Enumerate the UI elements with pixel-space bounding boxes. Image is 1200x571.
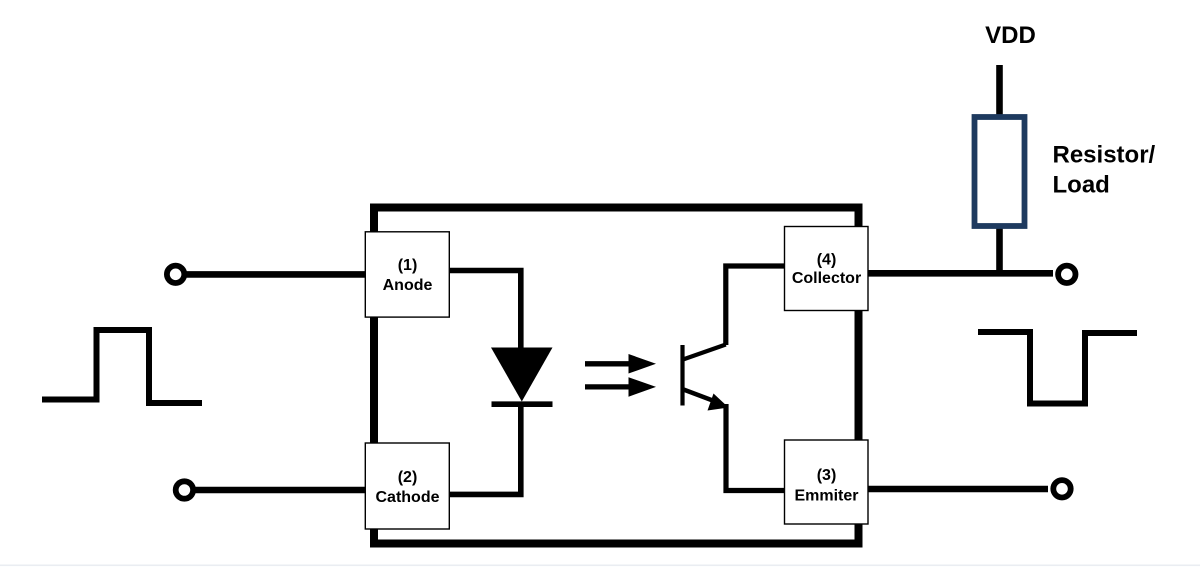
svg-text:Emmiter: Emmiter xyxy=(794,488,858,505)
transistor emitter arrowhead xyxy=(708,394,729,411)
input pulse waveform xyxy=(42,330,202,403)
svg-text:(1): (1) xyxy=(398,257,418,274)
light arrow 1 xyxy=(585,361,631,366)
wire collector internal xyxy=(726,266,785,345)
light arrow 2 xyxy=(585,384,631,389)
svg-text:(2): (2) xyxy=(398,469,418,486)
svg-text:Load: Load xyxy=(1053,172,1110,199)
output pulse waveform xyxy=(978,332,1137,404)
transistor Q1 base bar xyxy=(680,345,684,406)
wire emitter output xyxy=(866,486,1048,493)
wire transistor emitter diagonal xyxy=(684,390,715,402)
wire VDD to resistor xyxy=(996,65,1003,117)
optocoupler package outline U1 xyxy=(374,208,859,544)
wire emitter internal xyxy=(726,404,785,491)
resistor R1 (load) xyxy=(975,117,1025,226)
svg-text:VDD: VDD xyxy=(985,22,1036,49)
svg-text:(4): (4) xyxy=(817,252,837,269)
terminal input + xyxy=(167,266,184,283)
wire transistor collector diagonal xyxy=(683,345,726,360)
page rule (faint bottom border) xyxy=(0,565,1200,567)
terminal output - xyxy=(1053,480,1070,497)
pin box (2) Cathode xyxy=(365,443,449,529)
terminal output + xyxy=(1058,266,1075,283)
wire input anode lead xyxy=(185,271,367,278)
pin box (1) Anode xyxy=(365,232,449,317)
svg-text:Resistor/: Resistor/ xyxy=(1053,142,1156,169)
wire anode box to LED xyxy=(449,271,521,353)
wire resistor to collector line xyxy=(996,226,1003,274)
wire cathode box to LED xyxy=(449,402,521,494)
LED D1 cathode bar xyxy=(492,401,553,407)
svg-text:Anode: Anode xyxy=(383,277,433,294)
wire input cathode lead xyxy=(194,487,367,494)
svg-text:(3): (3) xyxy=(817,467,837,484)
pin box (3) Emmiter xyxy=(785,440,869,524)
LED D1 triangle xyxy=(491,348,553,402)
svg-text:Cathode: Cathode xyxy=(376,489,440,506)
terminal input - xyxy=(176,481,193,498)
svg-text:Collector: Collector xyxy=(792,270,861,287)
wire collector output xyxy=(866,270,1053,277)
pin box (4) Collector xyxy=(785,227,869,311)
